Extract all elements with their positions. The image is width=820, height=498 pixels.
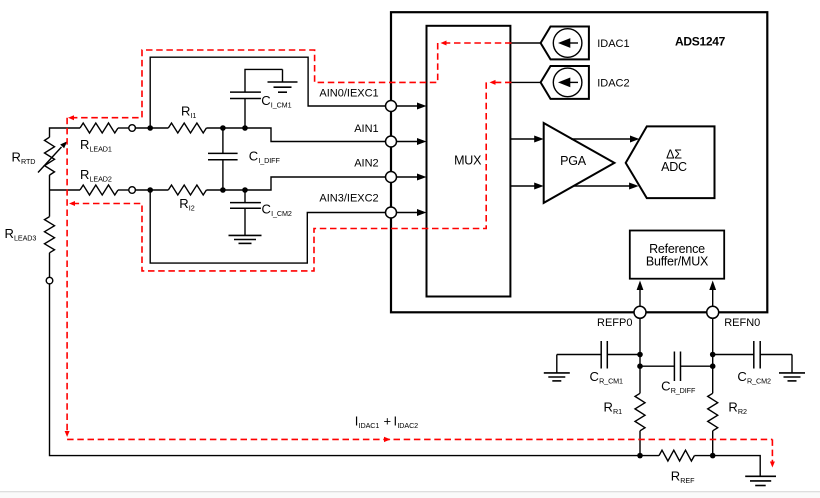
svg-text:IDAC2: IDAC2 <box>397 421 418 430</box>
svg-text:IDAC1: IDAC1 <box>597 38 629 50</box>
capacitor C_I_DIFF <box>222 128 224 153</box>
resistor R_LEAD2 <box>80 185 118 195</box>
red path bottom rail <box>67 438 772 440</box>
R_LEAD1 label <box>80 137 112 154</box>
resistor R_R1 <box>635 393 645 431</box>
wire R_R1 to rail <box>639 431 641 456</box>
wire REFN0 down <box>712 318 714 393</box>
MUX block <box>427 26 511 297</box>
svg-text:R1: R1 <box>613 407 622 416</box>
wire R_LEAD1 to terminal <box>118 127 129 129</box>
arrow MUX to PGA bottom <box>510 185 535 187</box>
R_I2 label <box>179 196 194 213</box>
ADC labels <box>661 148 687 174</box>
wire terminal to node bottom <box>135 189 169 191</box>
svg-text:Buffer/MUX: Buffer/MUX <box>646 255 709 269</box>
junction dot rail REFP0 <box>637 453 643 459</box>
svg-text:AIN1: AIN1 <box>354 123 378 135</box>
R_R1 label <box>604 400 623 417</box>
op-amp PGA <box>544 123 615 203</box>
wire R_LEAD2 to terminal <box>118 189 129 191</box>
svg-text:IDAC2: IDAC2 <box>597 77 629 89</box>
wire R_R2 to rail <box>712 431 714 456</box>
current source IDAC2 <box>541 66 589 99</box>
wire node to AIN1 step <box>206 128 385 142</box>
wire RTD top stub <box>50 128 81 137</box>
svg-text:MUX: MUX <box>454 154 482 168</box>
svg-text:R_CM1: R_CM1 <box>599 376 623 385</box>
red path combined current down left <box>66 118 68 432</box>
terminal circle node bottom <box>129 187 136 194</box>
wire terminal to node <box>135 127 169 129</box>
wire left column to bottom rail <box>50 283 660 455</box>
svg-text:REFP0: REFP0 <box>597 317 632 329</box>
svg-text:I2: I2 <box>189 203 195 212</box>
pin circle AIN2 <box>386 172 397 183</box>
ADC block <box>626 126 715 198</box>
terminal circle bottom-left <box>46 277 53 284</box>
C_I_DIFF label <box>249 148 281 165</box>
svg-text:REF: REF <box>680 476 695 485</box>
svg-text:AIN3/IEXC2: AIN3/IEXC2 <box>319 192 378 204</box>
ground C_I_CM2 <box>229 234 262 236</box>
arrow AIN0 to MUX <box>397 105 419 107</box>
capacitor C_I_CM1 <box>244 99 246 129</box>
ground C_R_CM1 <box>556 355 558 373</box>
svg-text:I_CM2: I_CM2 <box>271 209 292 218</box>
wire R_LEAD3 to terminal <box>49 253 51 278</box>
Reference Buffer/MUX block <box>630 231 724 279</box>
svg-text:R: R <box>12 150 21 165</box>
wire MUX to IDAC2 <box>510 81 540 83</box>
wire rail to ground <box>694 456 760 477</box>
red arrowhead IDAC1 corner <box>441 41 447 46</box>
svg-text:PGA: PGA <box>560 154 587 168</box>
arrow REFP0 to buffer <box>639 289 641 307</box>
ground C_I_CM1 <box>282 69 284 82</box>
C_R_CM2 label <box>737 369 771 386</box>
capacitor C_R_CM2 <box>713 354 754 356</box>
svg-text:R2: R2 <box>738 407 747 416</box>
svg-text:LEAD3: LEAD3 <box>14 234 36 243</box>
junction dot bottom-left <box>147 187 153 193</box>
red path down to ground <box>771 439 773 462</box>
R_RTD variable arrow <box>38 147 62 173</box>
junction dots REFP0 wire <box>637 352 643 358</box>
current source IDAC1 <box>541 27 589 60</box>
pin circle AIN3/IEXC2 <box>386 207 397 218</box>
pin circle REFP0 <box>634 306 646 318</box>
ground R_REF <box>745 475 776 477</box>
svg-text:C: C <box>590 369 599 384</box>
R_LEAD3 label <box>5 226 37 243</box>
red path IDAC2 through MUX to AIN3 loop <box>73 82 486 271</box>
red path IDAC2 overlay on wire <box>493 81 512 83</box>
C_I_CM1 label <box>261 93 291 110</box>
svg-text:R: R <box>604 400 613 415</box>
R_REF label <box>671 469 695 486</box>
svg-text:I1: I1 <box>191 111 197 120</box>
arrow AIN3 to MUX <box>397 212 419 214</box>
current label I_IDAC1 + I_IDAC2 <box>355 414 418 431</box>
red path IDAC1 through MUX to AIN0 loop <box>72 43 438 118</box>
wire node to AIN2 step <box>206 177 385 190</box>
svg-text:LEAD2: LEAD2 <box>90 175 112 184</box>
junction dot top-left <box>147 125 153 131</box>
red arrowhead down at bottom left <box>65 431 70 437</box>
resistor R_I1 <box>168 123 206 133</box>
svg-text:C: C <box>661 378 670 393</box>
R_I1 label <box>181 104 196 121</box>
C_R_DIFF label <box>661 378 696 395</box>
R_RTD label <box>12 150 36 167</box>
red path IDAC1 overlay on wire <box>444 42 512 44</box>
C_R_CM1 label <box>590 369 624 386</box>
wire RTD bottom <box>49 175 51 217</box>
svg-text:ADS1247: ADS1247 <box>675 35 726 49</box>
arrow REFN0 to buffer <box>712 289 714 307</box>
C_I_CM2 label <box>262 201 292 218</box>
wire AIN3 bottom detour <box>150 190 385 263</box>
svg-text:R_DIFF: R_DIFF <box>671 386 696 395</box>
svg-text:R: R <box>181 104 190 119</box>
pin circle REFN0 <box>707 306 719 318</box>
arrow MUX to PGA top <box>510 138 535 140</box>
svg-text:AIN2: AIN2 <box>354 158 378 170</box>
svg-text:LEAD1: LEAD1 <box>90 144 112 153</box>
junction dots REFN0 wire <box>710 352 716 358</box>
resistor R_R2 <box>708 393 718 431</box>
terminal circle node top <box>129 125 136 132</box>
resistor R_LEAD1 <box>80 123 118 133</box>
wire AIN0 top detour <box>150 57 385 128</box>
arrow PGA to ADC bottom <box>574 185 630 187</box>
resistor R_RTD <box>45 137 55 175</box>
red arrowhead at RTD bottom node <box>69 201 75 206</box>
svg-text:C: C <box>249 148 258 163</box>
svg-text:R: R <box>80 137 89 152</box>
svg-text:C: C <box>262 201 271 216</box>
capacitor C_I_CM2 <box>244 190 246 203</box>
ADS1247 main box <box>391 12 767 312</box>
svg-text:R: R <box>5 226 14 241</box>
wire RTD node to R_LEAD2 <box>50 189 81 191</box>
resistor R_I2 <box>168 185 206 195</box>
arrow AIN2 to MUX <box>397 176 419 178</box>
svg-text:C: C <box>261 93 270 108</box>
R_R2 label <box>728 400 747 417</box>
svg-text:R: R <box>80 167 89 182</box>
junction dot C_I_CM2 <box>242 187 248 193</box>
pin circle AIN0/IEXC1 <box>386 101 397 112</box>
resistor R_REF <box>659 450 694 461</box>
svg-text:IDAC1: IDAC1 <box>359 421 380 430</box>
ground C_R_CM2 <box>791 355 793 373</box>
red arrowhead at RTD top node <box>68 115 74 120</box>
R_LEAD2 label <box>80 167 112 184</box>
junction dot rail REFN0 <box>710 453 716 459</box>
svg-text:ADC: ADC <box>661 160 687 174</box>
arrow PGA to ADC top <box>571 138 631 140</box>
junction dot C_I_CM1 <box>242 125 248 131</box>
svg-text:I_DIFF: I_DIFF <box>258 156 280 165</box>
svg-text:AIN0/IEXC1: AIN0/IEXC1 <box>319 88 378 100</box>
footer separator line <box>0 492 820 498</box>
capacitor C_R_DIFF <box>640 365 674 367</box>
pin circle AIN1 <box>386 136 397 147</box>
svg-text:R: R <box>728 400 737 415</box>
resistor R_LEAD3 <box>45 217 55 253</box>
svg-text:R: R <box>179 196 188 211</box>
svg-text:R_CM2: R_CM2 <box>747 376 771 385</box>
red arrowhead IDAC2 corner <box>490 80 496 85</box>
wire MUX to IDAC1 <box>510 42 540 44</box>
svg-text:+: + <box>384 414 392 429</box>
capacitor C_R_CM1 <box>557 354 601 356</box>
junction dot C_I_DIFF bottom <box>220 187 226 193</box>
wire REFP0 down <box>639 318 641 393</box>
red arrowhead into ground <box>770 462 775 468</box>
svg-text:REFN0: REFN0 <box>724 317 760 329</box>
svg-text:C: C <box>737 369 746 384</box>
red arrowhead bottom rail right <box>384 437 391 442</box>
arrow AIN1 to MUX <box>397 141 419 143</box>
junction dot C_I_DIFF top <box>220 125 226 131</box>
svg-text:R: R <box>671 469 680 484</box>
svg-text:RTD: RTD <box>21 157 35 166</box>
svg-text:I_CM1: I_CM1 <box>271 100 292 109</box>
